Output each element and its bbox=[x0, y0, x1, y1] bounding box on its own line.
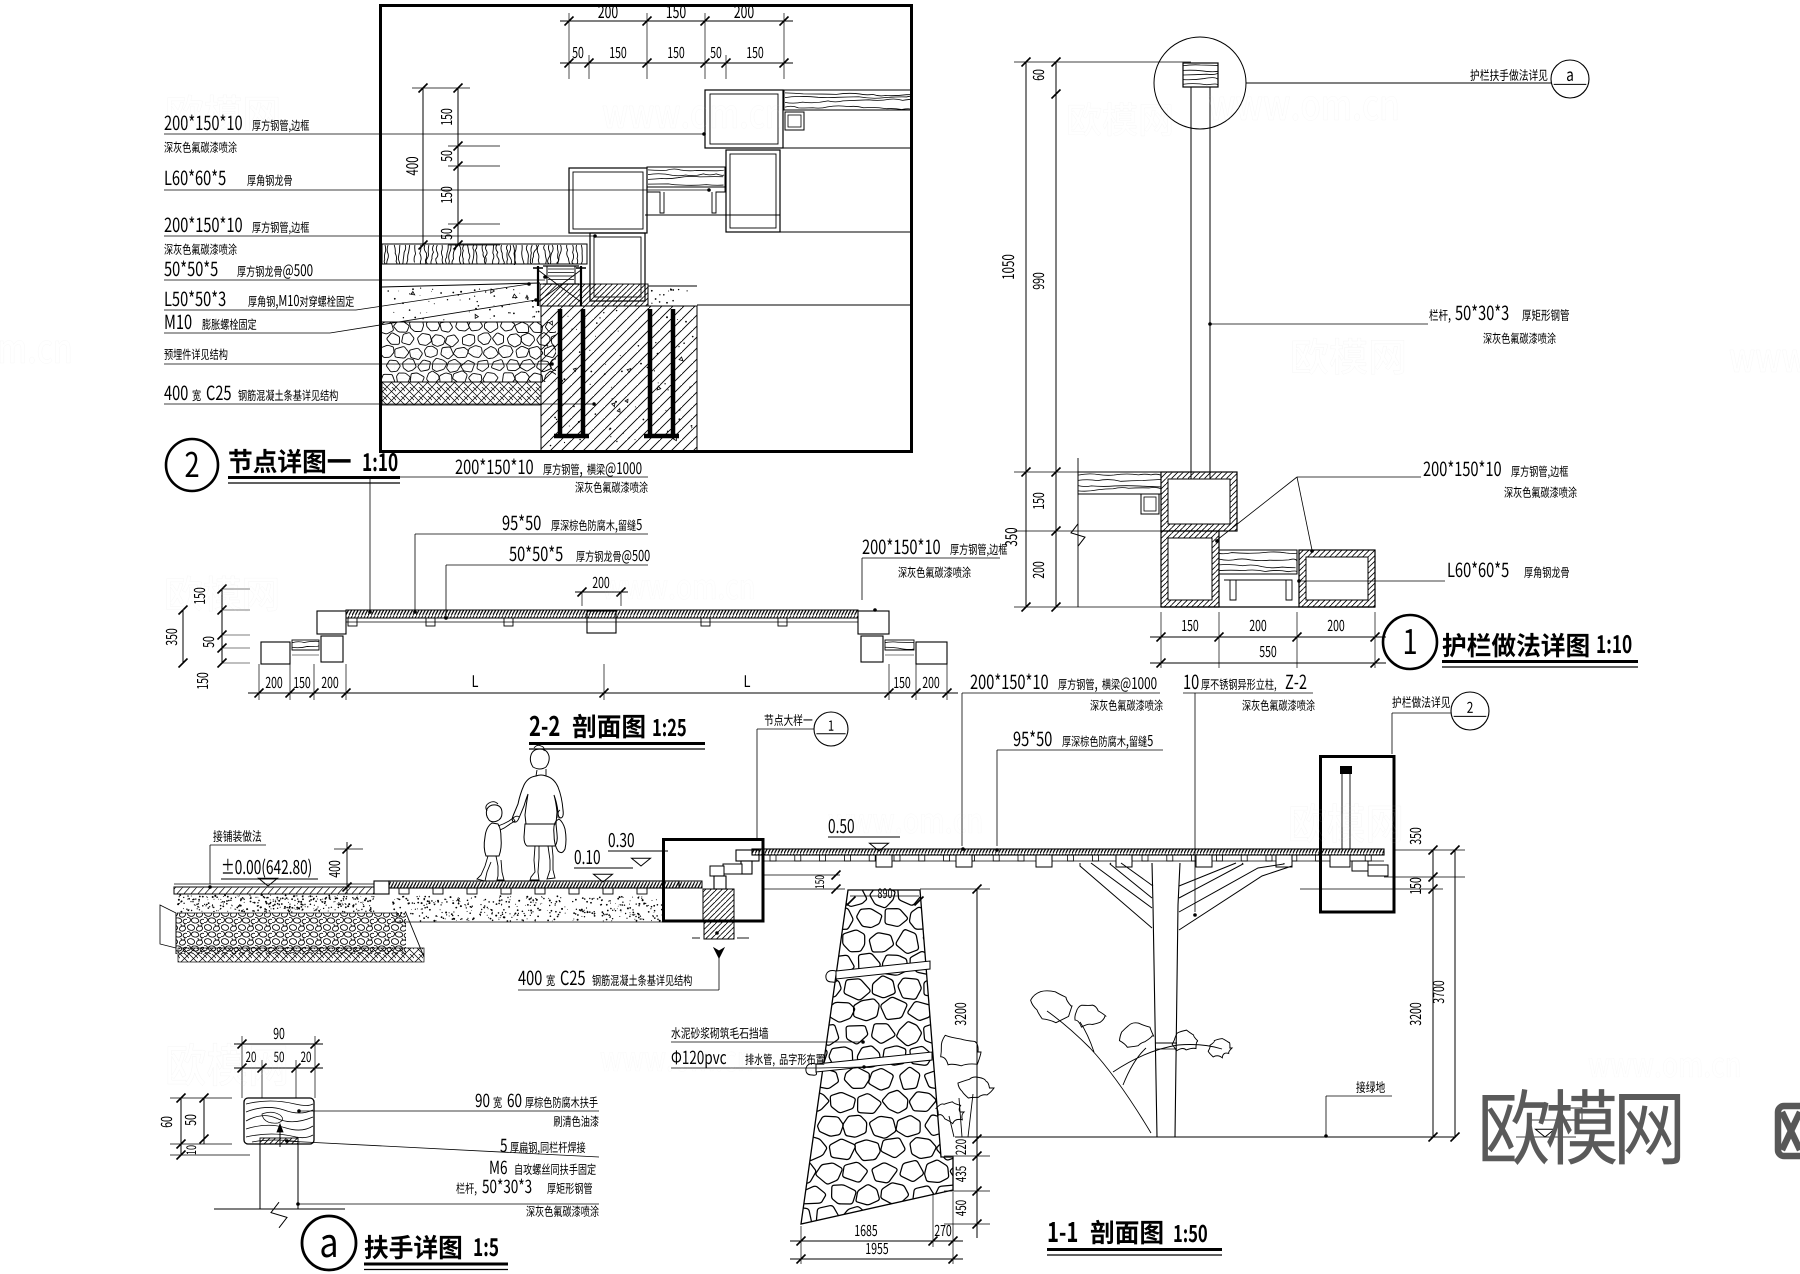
right dim chain 3700 bbox=[1454, 850, 1456, 1137]
label: 200*150*10 tube frame (railing detail) bbox=[1424, 461, 1431, 476]
walking mother figure bbox=[530, 749, 549, 769]
2-2 mid dim 200 above deck bbox=[575, 591, 628, 593]
handrail inner dim 50 bbox=[203, 1098, 205, 1144]
2-2 mid support tube bbox=[587, 611, 616, 633]
label: 400 wide C25 reinforced concrete strip footing bbox=[164, 386, 171, 400]
square tube vertical (mid frame) bbox=[726, 150, 780, 232]
label: L60*60*5 angle joist (railing detail) bbox=[1299, 580, 1445, 582]
2-2 leader label 95*50 preserved wood bbox=[503, 515, 510, 530]
title bubble 2 bbox=[166, 439, 218, 491]
anchor bolt right bbox=[580, 266, 582, 306]
left edge line with break symbol bbox=[1077, 458, 1079, 607]
railing post in box bbox=[1340, 766, 1352, 774]
2-2 left lower step: tube bbox=[261, 642, 290, 664]
2-2 right leader label 200*150*10 edge frame bbox=[863, 539, 870, 554]
concrete surface right of footing bbox=[648, 285, 697, 287]
watermark url mid bbox=[603, 580, 754, 600]
watermark url partial left edge bbox=[0, 340, 70, 363]
hatched square tube below bbox=[1161, 531, 1219, 607]
watermark omw above deck right bbox=[1291, 803, 1401, 842]
2-2 leader label 50*50*5 joist @500 bbox=[509, 547, 516, 562]
label: phi120 pvc drain pipes bbox=[672, 1050, 681, 1064]
child legs and shoes bbox=[477, 856, 491, 881]
label: cement mortar rubble stone wall bbox=[671, 1027, 680, 1039]
grade deck band (wood walkway) bbox=[389, 881, 679, 888]
watermark omw center right bbox=[1293, 338, 1404, 375]
label: embedded parts see structure bbox=[164, 349, 172, 360]
2-2 left lower step: wood infill bbox=[292, 640, 319, 650]
dendriform steel column trunk bbox=[1152, 863, 1180, 1137]
railing detail circle (handrail blow-up) bbox=[1154, 37, 1246, 129]
drain pipe lower (pvc) bbox=[816, 1052, 932, 1072]
watermark url faint above logo bbox=[1589, 1058, 1740, 1078]
angle support under plank bbox=[1219, 574, 1297, 600]
2-2 right lower step: wood infill bbox=[885, 640, 914, 650]
node detail marker: text and bubble 1 bbox=[765, 714, 774, 726]
vertical dimension 400 bbox=[422, 88, 424, 245]
elevated deck band bbox=[752, 849, 1384, 855]
watermark url partial right edge bbox=[1730, 349, 1800, 372]
level text +-0.00(642.80) bbox=[223, 859, 233, 874]
wall bottom dim 1955 bbox=[790, 1258, 963, 1260]
extension lines right dims bbox=[1394, 849, 1465, 851]
title: railing construction detail 1:10 bbox=[1443, 633, 1466, 657]
ground break line under post bbox=[214, 1208, 345, 1210]
railing base dim chain 150/200/200 bbox=[1150, 636, 1386, 638]
step tubes in railing box bbox=[1352, 861, 1368, 871]
bedding speckle band under deck bbox=[642, 899, 644, 901]
concrete slab band with leaders bbox=[382, 283, 540, 287]
2-2 section: leader label 200*150*10 square tube beams @1000 bbox=[456, 459, 463, 474]
railing dim chain inner 60/990/150/200 bbox=[1055, 62, 1057, 607]
title: node detail 1 1:10 bbox=[229, 449, 251, 473]
square tube 200x150 (lower left frame) bbox=[569, 168, 647, 233]
handrail left dim 60/10 bbox=[180, 1098, 182, 1155]
site logo partial glyph at right edge bbox=[1778, 1106, 1800, 1156]
wall bottom dim 1685/270 bbox=[790, 1240, 963, 1242]
deck end bearer in box bbox=[1330, 855, 1350, 867]
base line under railing assembly bbox=[1161, 606, 1375, 608]
title: 2-2 section 1:25 bbox=[530, 716, 540, 736]
mother handbag bbox=[554, 819, 566, 853]
2-2 left end tube bbox=[317, 611, 346, 634]
column branch upper-right long bbox=[1179, 863, 1292, 930]
mother legs and shoes bbox=[530, 846, 539, 880]
wall-left dim chain 3200/220/435/450 bbox=[976, 889, 978, 1238]
label: M10 expansion bolt fixing bbox=[165, 315, 174, 329]
wood deck band (plan of planks) bbox=[382, 244, 587, 264]
grout pad hatched bbox=[540, 284, 648, 306]
label: 200*150*10 square tube, frame (mid) bbox=[165, 217, 172, 232]
label: 95*50 preserved wood (1-1) bbox=[1014, 731, 1021, 746]
dim 400 (pavement to deck) bbox=[346, 842, 348, 894]
grade deck bearers bbox=[399, 888, 409, 894]
label: 200*150*10 square tube, frame (top) bbox=[165, 115, 172, 130]
watermark omw left mid bbox=[167, 576, 277, 612]
compacted subgrade crosshatch band bbox=[382, 382, 541, 405]
subgrade dark band bbox=[178, 948, 424, 962]
railing post 50x30 tube (elevation) bbox=[1190, 87, 1192, 525]
hatched square tube frame 200x150 (top) bbox=[1161, 472, 1237, 531]
mother coat and arms bbox=[512, 775, 563, 824]
watermark omw right of box bbox=[1069, 103, 1172, 137]
extension lines railing dims bbox=[1014, 61, 1191, 63]
2-2 right lower step: tube 2 bbox=[861, 636, 883, 662]
watermark url top right bbox=[1209, 96, 1397, 120]
angle bracket under mid plank bbox=[647, 187, 725, 213]
level 0.30 mark bbox=[609, 833, 615, 847]
2-2 right end tube bbox=[858, 611, 889, 634]
title: handrail detail 1:5 bbox=[365, 1235, 388, 1260]
node detail frame box at deck step bbox=[664, 840, 764, 922]
embedded channel right bbox=[644, 309, 679, 436]
labels right of handrail detail bbox=[476, 1094, 482, 1108]
mother skirt bbox=[524, 824, 557, 846]
handrail post below (50x30 tube) bbox=[259, 1144, 261, 1209]
railing base dim 550 bbox=[1150, 662, 1386, 664]
watermark omw top-left bbox=[168, 95, 278, 131]
watermark omw bottom-left bbox=[168, 1043, 286, 1086]
hatched square tube right bbox=[1299, 550, 1375, 607]
label: railing detail see bubble 2 bbox=[1392, 696, 1401, 708]
2-2 left vertical dim chain 150/50/150 bbox=[221, 589, 223, 663]
drain pipe upper (pvc) bbox=[836, 961, 930, 979]
small angle steel 50x50 under handrail bbox=[785, 112, 804, 130]
site logo omw large (bottom right) bbox=[1482, 1089, 1680, 1165]
title bubble a (handrail detail) bbox=[302, 1216, 356, 1270]
title: 1-1 section 1:50 bbox=[1049, 1222, 1058, 1242]
ground line right of footing bbox=[697, 304, 910, 306]
concrete pier hatched bbox=[703, 889, 734, 921]
handrail dim 90 top bbox=[234, 1043, 323, 1045]
watermark url bottom mid bbox=[601, 1052, 752, 1072]
wall top width dim 890 bbox=[847, 897, 856, 906]
2-2 bottom dimension chain 200/150/200/L/L/150/200 bbox=[248, 692, 958, 694]
C25 concrete footing hatch block bbox=[541, 306, 697, 451]
watermark url above deck bbox=[829, 814, 981, 834]
label: L50*50*3 angle, M10 bolts bbox=[165, 292, 171, 306]
beam depth lines and 150 dim bbox=[763, 874, 840, 876]
2-2 left lower step: tube 2 bbox=[321, 636, 343, 662]
level 0.10 mark bbox=[575, 850, 581, 864]
2-2 small cleats under deck bbox=[348, 618, 357, 626]
label: connect to green space bbox=[1356, 1081, 1365, 1093]
deck band entering box bbox=[679, 881, 702, 888]
leader to handrail detail bubble a bbox=[1246, 82, 1552, 84]
detail bubble a bbox=[1551, 60, 1589, 98]
level 0.50 mark bbox=[829, 819, 835, 833]
wood deck plank right of tube bbox=[1219, 550, 1297, 574]
label: 10 thick stainless shaped column Z-2 bbox=[1184, 675, 1190, 689]
label: rail 50x30x3 rect tube bbox=[1210, 323, 1428, 325]
column branch upper-left long bbox=[1080, 863, 1152, 928]
dimension chain 50/150/150/50/150 bbox=[560, 62, 793, 64]
right dim chain 350/150/3200 bbox=[1432, 850, 1434, 1137]
railing dim chain outer 1050/350 bbox=[1025, 62, 1027, 607]
2-2 deck band (wood planks on edge) bbox=[346, 610, 858, 618]
pavement surface slab (left) bbox=[174, 887, 374, 894]
label: L60*60*5 angle steel joist bbox=[165, 171, 171, 185]
label: 200*150*10 tube beam @1000 (1-1) bbox=[971, 674, 978, 689]
child body and arm bbox=[484, 823, 501, 856]
grade deck left end tube bbox=[374, 881, 389, 894]
watermark omw in box lower bbox=[391, 342, 508, 380]
2-2 right lower step: tube bbox=[916, 642, 947, 664]
title bubble 1 (railing detail) bbox=[1383, 615, 1437, 669]
gravel sub-base band bbox=[176, 913, 406, 954]
column branch upper-right short bbox=[1179, 863, 1243, 898]
level mark at ground (behind logo) bbox=[1536, 1129, 1555, 1137]
square tube 200x150 frame (upper rail beam) bbox=[705, 90, 783, 148]
flat steel plate hatched under handrail bbox=[260, 1138, 298, 1144]
railing node frame box (1-1 right) bbox=[1321, 757, 1395, 913]
walking child figure bbox=[486, 805, 502, 822]
bush at wall base bbox=[941, 1035, 981, 1065]
wood deck strip at railing base bbox=[1078, 472, 1161, 494]
step tubes inside node box bbox=[736, 850, 759, 861]
label: 50*50*5 square steel joist @500 bbox=[164, 262, 171, 277]
leafy tree stems bbox=[1047, 1011, 1222, 1133]
foliage scribbles bbox=[1031, 991, 1072, 1023]
handrail dim 20/50/20 bbox=[234, 1067, 323, 1069]
level mark at pavement bbox=[259, 878, 278, 886]
watermark url in box top bbox=[603, 105, 782, 128]
label: paving connection bbox=[213, 830, 222, 842]
handrail wood block bbox=[244, 1098, 314, 1144]
wood deck plank (mid step) bbox=[647, 167, 725, 187]
bedding speckle band left bbox=[274, 904, 276, 906]
small joist square under deck strip bbox=[1141, 494, 1159, 514]
dimension chain 200/150/200 (top) bbox=[560, 20, 793, 22]
detail drawing 2 frame (node detail box) bbox=[381, 6, 912, 452]
wood handrail cap in circle bbox=[1183, 63, 1218, 87]
elevated deck bearers bbox=[876, 855, 892, 867]
embedded channel left (pre-embedded part) bbox=[554, 309, 589, 436]
pier break arrow below bbox=[714, 948, 724, 958]
ground line bbox=[955, 1136, 1456, 1138]
vertical dimension chain 150/50/150/50 bbox=[457, 88, 459, 245]
anchor bolt left bbox=[537, 266, 539, 306]
label: 400 wide C25 strip footing (1-1) bbox=[518, 971, 525, 985]
column branch upper-left short bbox=[1110, 863, 1153, 898]
bolt assembly / fixing plate bbox=[547, 266, 575, 284]
elevated deck cleats bbox=[770, 855, 776, 861]
wood handrail deck strip (top right) bbox=[784, 90, 912, 110]
2-2 left vertical dim chain 350 bbox=[182, 610, 184, 663]
M6 screw symbol bbox=[279, 1128, 281, 1147]
square tube lower (under frame) bbox=[590, 233, 645, 301]
